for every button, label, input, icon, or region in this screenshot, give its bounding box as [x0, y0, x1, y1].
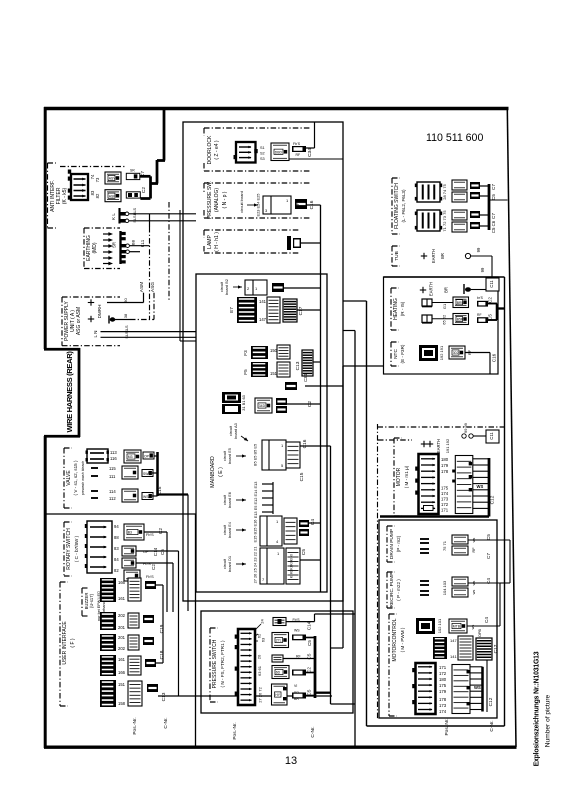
filter mini plug F2S	[126, 192, 140, 198]
pressure plug row5	[272, 684, 288, 705]
svg-text:C16: C16	[492, 353, 497, 362]
floating bus	[488, 184, 491, 230]
hatched plug C13	[302, 350, 313, 376]
motor comb plug	[455, 456, 473, 514]
svg-text:62: 62	[442, 314, 447, 319]
valve plug row3	[122, 489, 138, 502]
svg-text:BR: BR	[444, 287, 449, 293]
svg-text:141: 141	[259, 299, 267, 304]
svg-text:board E4: board E4	[227, 521, 232, 538]
wire heating row1 to bus	[488, 303, 497, 305]
wire C2 to bus	[287, 403, 321, 405]
floating mini A1	[470, 182, 480, 189]
floating plug A2	[452, 192, 467, 202]
mainboard block MAN lower	[222, 404, 241, 414]
svg-text:WS: WS	[294, 629, 300, 633]
wire L to mainboard	[101, 331, 197, 333]
valve mini OP	[143, 452, 154, 459]
wire doorlock lower to box right	[289, 158, 343, 160]
group bracket NTC	[390, 342, 392, 366]
svg-text:161: 161	[118, 596, 126, 601]
ui comb plug 1	[128, 578, 141, 601]
svg-text:Number of picture: Number of picture	[545, 694, 552, 747]
svg-text:HEATING: HEATING	[393, 298, 399, 320]
svg-text:C2: C2	[488, 297, 493, 303]
svg-text:113: 113	[110, 450, 117, 455]
wire row2 to bus	[306, 637, 315, 639]
frame outer border top	[44, 107, 509, 110]
pressure mini row2	[292, 635, 306, 641]
svg-text:C4: C4	[310, 519, 316, 525]
pressure switch connector	[238, 629, 255, 705]
ui comb plug 5	[128, 681, 142, 706]
ui comb 1	[100, 578, 116, 602]
drain plug 2	[452, 546, 468, 555]
ui mini 2	[143, 615, 154, 623]
wire mc row1	[467, 625, 500, 627]
ui mini 5	[147, 684, 158, 692]
svg-text:M3: M3	[128, 455, 133, 459]
svg-text:BB: BB	[131, 240, 136, 246]
group bracket buzzer	[81, 588, 83, 616]
motor ladder lines	[473, 458, 489, 460]
svg-text:C5: C5	[301, 549, 307, 555]
terminal pin K	[121, 212, 127, 216]
wire E4 to bus	[309, 522, 321, 524]
svg-text:C5: C5	[491, 194, 496, 200]
pressure bus exit	[315, 692, 331, 694]
svg-text:180: 180	[439, 677, 447, 682]
heating element row1	[422, 299, 432, 306]
svg-text:C19: C19	[159, 624, 165, 633]
wire row5 to bus	[306, 695, 315, 697]
svg-text:TUB: TUB	[394, 251, 400, 261]
ui mini 4	[145, 659, 156, 667]
group bracket pressure switch	[209, 628, 211, 702]
wire tub to C11	[471, 255, 492, 257]
valve connector	[87, 449, 108, 463]
ui comb 5	[100, 680, 116, 707]
comb plug D1	[286, 548, 300, 584]
chain boundary around motor section vertical	[377, 424, 379, 720]
recirc plug 1	[452, 577, 468, 586]
box bottom-left user interface enclosure top edge	[45, 513, 196, 515]
comb plug E5	[286, 442, 300, 468]
svg-text:173: 173	[441, 497, 449, 502]
svg-text:( N - FS, FTR2, FTR1 ): ( N - FS, FTR2, FTR1 )	[220, 640, 225, 687]
svg-text:(R - r5): (R - r5)	[400, 301, 405, 316]
svg-text:201: 201	[118, 625, 126, 630]
svg-text:S2: S2	[260, 152, 265, 156]
wire drain to right	[468, 539, 510, 541]
floating switch connector A	[417, 182, 440, 202]
group bracket earthing	[83, 228, 85, 269]
svg-text:C12: C12	[488, 697, 494, 706]
svg-text:(MD): (MD)	[92, 242, 98, 253]
wire channel to heating box	[343, 365, 384, 367]
svg-text:201: 201	[118, 635, 126, 640]
svg-text:13: 13	[285, 755, 297, 767]
power supply plus symbol 2	[88, 318, 94, 320]
heating mini row1	[477, 301, 488, 307]
svg-text:Pos. Nr.: Pos. Nr.	[444, 718, 450, 735]
svg-text:C5 C6: C5 C6	[491, 220, 496, 233]
svg-text:C13: C13	[161, 692, 167, 701]
svg-text:Fb'S: Fb'S	[146, 575, 154, 579]
svg-text:28 74 75: 28 74 75	[442, 183, 447, 199]
wire B2 to bus	[284, 287, 321, 289]
svg-text:173: 173	[439, 703, 447, 708]
svg-text:SW: SW	[143, 472, 149, 476]
svg-text:83: 83	[114, 546, 119, 551]
svg-text:191 192: 191 192	[445, 438, 450, 453]
pressure switch box	[201, 611, 353, 713]
svg-text:ASG or ASM: ASG or ASM	[76, 307, 82, 335]
svg-text:27 26 72: 27 26 72	[258, 686, 263, 702]
svg-text:board E5: board E5	[227, 448, 232, 464]
wire junction vertical near K L	[149, 214, 151, 227]
wire rotary A right	[144, 531, 167, 533]
ui comb plug 2	[128, 613, 139, 628]
heating/NTC inner box	[384, 277, 499, 374]
svg-text:99: 99	[476, 247, 481, 252]
svg-text:WS: WS	[143, 495, 149, 499]
svg-text:(E - F3R): (E - F3R)	[400, 344, 405, 363]
power supply plus symbol 1	[88, 302, 94, 304]
svg-text:DRAIN PUMP: DRAIN PUMP	[389, 529, 395, 559]
hatched plug C17 mc	[476, 638, 492, 660]
heating bus exit right	[497, 307, 504, 309]
floating switch connector B	[417, 210, 440, 231]
svg-text:C-Nr.: C-Nr.	[489, 720, 495, 731]
filter relay plug upper	[105, 172, 121, 184]
svg-text:board D1: board D1	[227, 556, 232, 572]
svg-text:ASM: ASM	[139, 282, 145, 292]
group bracket anti interference filter	[47, 163, 49, 228]
connector B2 box	[245, 280, 267, 295]
group bracket recirc pump	[386, 572, 388, 608]
connector E4 box	[260, 516, 282, 546]
svg-text:C11: C11	[489, 432, 494, 440]
svg-text:B5R: B5R	[457, 318, 464, 322]
svg-text:MAINBOARD: MAINBOARD	[210, 456, 216, 488]
svg-text:C14: C14	[307, 621, 312, 630]
svg-text:111: 111	[109, 474, 116, 479]
svg-text:C13: C13	[295, 361, 301, 370]
svg-text:WIRE HARNESS (REAR): WIRE HARNESS (REAR)	[65, 351, 74, 433]
wire C14 horizontal to pressure switch	[315, 613, 356, 615]
svg-text:ASV: ASV	[109, 177, 117, 181]
heating plug row2	[453, 314, 469, 325]
ui mini 3	[143, 637, 154, 645]
ui mini 1	[145, 581, 156, 589]
comb plug F5	[277, 362, 290, 377]
svg-text:RF: RF	[477, 313, 482, 317]
wire D1 to bus	[300, 559, 321, 561]
pressure plug row2	[272, 633, 289, 648]
motor bus right thick	[488, 458, 491, 517]
svg-text:63 61: 63 61	[257, 665, 262, 676]
svg-text:board B2: board B2	[224, 279, 229, 295]
wire earth pin2	[130, 251, 140, 253]
svg-text:151: 151	[118, 682, 126, 687]
svg-text:82: 82	[114, 568, 119, 573]
svg-text:174: 174	[439, 709, 447, 714]
svg-text:88: 88	[114, 535, 119, 540]
group bracket valve	[63, 448, 65, 508]
terminal busbar K L	[118, 208, 120, 224]
pressure plug row4	[272, 666, 289, 679]
wire ASG with chain	[115, 319, 130, 321]
label C34	[307, 147, 315, 158]
svg-text:175: 175	[439, 683, 447, 688]
ui comb 3	[100, 634, 116, 651]
svg-text:LAMP: LAMP	[207, 235, 213, 249]
svg-text:C15: C15	[299, 472, 305, 481]
valve wire bus C15	[156, 452, 159, 496]
svg-text:OPB: OPB	[478, 629, 482, 637]
svg-text:circuit board: circuit board	[239, 191, 244, 213]
floating mini B2	[470, 222, 480, 229]
svg-text:Kl Kl Kl Kl Kl Kl: Kl Kl Kl Kl Kl Kl	[290, 554, 294, 578]
svg-text:(ANALOG): (ANALOG)	[214, 188, 220, 213]
wire step x343 to x330.5	[331, 647, 344, 649]
plug 34D	[255, 398, 272, 413]
svg-text:VALVE: VALVE	[66, 470, 72, 486]
svg-text:C2: C2	[158, 528, 164, 534]
svg-text:179: 179	[441, 463, 449, 468]
pressure mini row5	[292, 693, 306, 699]
motor plus symbols	[421, 443, 427, 445]
frame notch step around WIRE HARNESS title	[44, 348, 80, 351]
comb plug E7	[267, 297, 280, 323]
group bracket motor	[393, 438, 395, 516]
earth busbar	[119, 231, 121, 264]
svg-text:board E6: board E6	[227, 492, 232, 508]
svg-text:E23 E24 E25: E23 E24 E25	[256, 194, 261, 217]
wire box1 to right outer box	[343, 300, 367, 302]
mini plug ws E4 lower	[299, 529, 309, 536]
wire element2 to plug	[432, 318, 453, 320]
connector E5 box	[262, 440, 286, 470]
wire bus mainboard C-column	[320, 205, 322, 592]
svg-text:180: 180	[441, 457, 449, 462]
mc bus right thick	[481, 667, 484, 712]
wire rotary B right	[136, 550, 179, 552]
mainboard box	[196, 274, 327, 592]
svg-text:BR5: BR5	[457, 301, 464, 305]
svg-text:192 191: 192 191	[439, 345, 444, 360]
mainboard comb E7	[237, 297, 257, 323]
group bracket tub	[391, 246, 393, 266]
svg-text:L N: L N	[93, 331, 98, 338]
svg-text:SR: SR	[130, 169, 135, 173]
svg-text:104 103: 104 103	[442, 580, 447, 595]
svg-text:110 511 600: 110 511 600	[426, 132, 483, 144]
tub terminal circle	[465, 253, 470, 258]
svg-text:(L - F6L2, F6L3): (L - F6L2, F6L3)	[401, 189, 406, 222]
motor chain connect	[378, 439, 412, 441]
mainboard comb F5	[251, 362, 268, 377]
svg-text:C-Nr.: C-Nr.	[310, 726, 316, 737]
group bracket power supply	[61, 297, 63, 346]
wire heating row2 to bus	[488, 319, 497, 321]
svg-text:Pos.-Nr.: Pos.-Nr.	[132, 717, 138, 734]
svg-text:S3: S3	[260, 157, 265, 161]
group bracket rotary switch	[63, 522, 65, 576]
svg-text:62: 62	[257, 633, 262, 638]
svg-text:DOORLOCK: DOORLOCK	[207, 135, 213, 164]
comb plug F3	[277, 345, 290, 359]
wire box1 to x355	[343, 330, 355, 332]
wire earth pin1	[130, 245, 150, 247]
svg-text:E15 B15 E16: E15 B15 E16	[253, 520, 258, 543]
mc comb plug big	[452, 665, 470, 714]
svg-text:( H - h1 ): ( H - h1 )	[214, 232, 220, 252]
svg-text:DMRH: DMRH	[97, 305, 102, 319]
wire pressure analog to bus	[307, 204, 321, 206]
svg-text:HY: HY	[275, 693, 280, 697]
svg-text:Pos.-Nr.: Pos.-Nr.	[232, 722, 238, 739]
svg-text:114: 114	[109, 489, 116, 494]
svg-text:C11: C11	[489, 280, 494, 288]
svg-text:NTC: NTC	[393, 349, 399, 359]
wire bus x330.5	[330, 446, 332, 704]
svg-text:F3: F3	[243, 350, 248, 356]
svg-text:175: 175	[441, 486, 449, 491]
floating plug B2	[452, 222, 467, 232]
svg-text:179: 179	[439, 689, 447, 694]
plug B2	[272, 283, 284, 292]
svg-text:MTB: MTB	[453, 625, 461, 629]
group bracket user interface	[59, 582, 61, 706]
svg-text:FLOATING SWITCH: FLOATING SWITCH	[394, 183, 400, 229]
wire ui5 C13 long	[158, 695, 332, 697]
ui comb 4	[100, 655, 116, 676]
mainboard block MAN upper	[222, 392, 241, 403]
svg-text:K L: K L	[111, 213, 116, 220]
wire recirc to right	[468, 582, 510, 584]
ui comb plug 4	[128, 656, 141, 675]
ui comb 2	[100, 612, 116, 630]
filter relay plug lower	[105, 190, 121, 202]
svg-text:RECIRC. PUMP: RECIRC. PUMP	[389, 573, 395, 608]
svg-text:( C - b7/8W ): ( C - b7/8W )	[74, 535, 79, 562]
valve mini SW	[142, 470, 153, 477]
pressure bus thick	[314, 636, 317, 698]
frame outer border left with notch for title	[44, 107, 47, 349]
svg-text:27L: 27L	[276, 639, 282, 643]
pressure pin pointer top	[255, 624, 261, 630]
svg-text:( M - PWM ): ( M - PWM )	[400, 627, 405, 652]
E6 tick pins	[262, 483, 273, 485]
rotary connector	[87, 521, 112, 573]
NTC plug	[449, 346, 465, 359]
frame outer border right	[507, 108, 516, 747]
wire ui1	[156, 584, 163, 586]
svg-text:31 B1 63: 31 B1 63	[241, 395, 246, 411]
svg-text:99 99: 99 99	[463, 422, 468, 433]
wire doorlock to box top	[306, 147, 315, 149]
group bracket floating switch	[391, 178, 393, 234]
svg-text:DBD: DBD	[275, 150, 283, 154]
wire valve down to pressure box	[187, 495, 189, 612]
svg-text:C34: C34	[303, 373, 308, 382]
svg-text:166: 166	[118, 670, 126, 675]
svg-text:C18: C18	[159, 650, 165, 659]
wire F group to bus	[313, 361, 321, 363]
svg-text:E13 E5 E12 E14 E13: E13 E5 E12 E14 E13	[253, 482, 258, 519]
svg-text:MOTORCONTROL: MOTORCONTROL	[392, 618, 398, 661]
svg-text:RF: RF	[296, 202, 300, 208]
svg-text:prewash wash bleach: prewash wash bleach	[81, 461, 85, 496]
wire L to box1	[129, 220, 196, 222]
svg-text:158: 158	[118, 701, 126, 706]
motorcontrol comb 147	[433, 637, 447, 659]
heating plus symbol	[420, 289, 426, 291]
svg-text:ROTARY SWITCH: ROTARY SWITCH	[66, 528, 72, 570]
valve bus exit wire	[158, 493, 189, 495]
terminal pin L	[121, 219, 127, 223]
svg-text:OP: OP	[144, 454, 150, 458]
box bottom-left right edge	[195, 514, 197, 747]
heating plug row1	[453, 297, 469, 308]
svg-text:( V - s1, s2, s15 ): ( V - s1, s2, s15 )	[73, 460, 78, 495]
svg-text:WS: WS	[474, 685, 481, 690]
svg-text:141: 141	[450, 654, 457, 659]
svg-text:ws: ws	[472, 590, 476, 595]
doorlock mini plug BLS3	[292, 146, 306, 152]
drain plug 1	[452, 535, 468, 544]
wire circles to C11	[473, 435, 486, 437]
svg-text:Explosionszeichnungs Nr.:N1031: Explosionszeichnungs Nr.:N1031G13	[534, 651, 541, 766]
group bracket lamp	[204, 229, 300, 231]
svg-text:B5 E5 B5 E5: B5 E5 B5 E5	[253, 444, 258, 466]
frame outer border bottom	[44, 745, 517, 748]
svg-text:C7: C7	[491, 184, 496, 190]
valve pins row3	[91, 490, 98, 492]
floating mini A2	[470, 192, 480, 199]
svg-text:VI: VI	[294, 684, 297, 688]
svg-text:Fb'S: Fb'S	[293, 142, 301, 146]
svg-text:E7: E7	[229, 307, 234, 313]
mainboard comb F3	[251, 346, 268, 359]
svg-text:174: 174	[441, 491, 449, 496]
svg-text:202: 202	[118, 613, 126, 618]
wire element1 to plug	[432, 302, 453, 304]
svg-text:34D: 34D	[259, 404, 266, 408]
group bracket heating	[390, 288, 392, 330]
wire NTC to C16	[465, 352, 490, 354]
heating earth terminal	[463, 284, 465, 294]
svg-text:C2: C2	[151, 564, 156, 570]
pressure analog connector box	[263, 196, 291, 214]
svg-text:RF: RF	[472, 547, 476, 553]
wire row4 to bus	[306, 672, 315, 674]
svg-text:Fb'S: Fb'S	[146, 533, 154, 537]
floating mini B1	[470, 211, 480, 218]
svg-text:SR: SR	[112, 242, 117, 248]
lamp plug	[287, 236, 291, 250]
mc ladder lines	[470, 666, 483, 668]
svg-text:24: 24	[260, 619, 265, 624]
svg-text:C12: C12	[490, 495, 496, 504]
C11 box	[486, 278, 499, 291]
wire lamp to bus	[301, 242, 321, 244]
wire E7 to bus	[297, 309, 321, 311]
motorcontrol comb plug	[458, 636, 473, 660]
wire floating to frame	[489, 199, 508, 201]
